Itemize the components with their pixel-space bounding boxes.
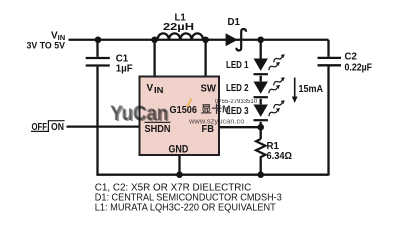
svg-text:V: V (147, 83, 154, 94)
wire SW pin (204, 40, 206, 78)
wire GND pin (178, 155, 180, 175)
watermark (110, 99, 258, 127)
svg-text:C2: C2 (345, 52, 357, 63)
node L1 left (151, 36, 158, 43)
node top-left (95, 36, 102, 43)
label OFF/ON (31, 121, 65, 133)
wire VIN pin (153, 40, 155, 78)
wire FB (219, 126, 261, 128)
LED 2 (226, 76, 286, 98)
svg-text:1µF: 1µF (116, 63, 133, 74)
svg-text:L1: MURATA LQH3C-220 OR EQUIVA: L1: MURATA LQH3C-220 OR EQUIVALENT (95, 202, 276, 213)
node GND rail (176, 171, 183, 178)
LED 3 (226, 99, 286, 121)
svg-text:D1: D1 (228, 17, 241, 28)
node L1 right (202, 36, 209, 43)
svg-text:6.34Ω: 6.34Ω (267, 151, 293, 162)
wire SHDN (67, 125, 140, 127)
svg-text:15mA: 15mA (299, 84, 324, 95)
diode D1 schottky (226, 17, 246, 51)
svg-text:IN: IN (154, 86, 164, 95)
svg-text:www.szyucan.co: www.szyucan.co (188, 117, 244, 126)
wire LED string (260, 40, 262, 175)
svg-text:FB: FB (202, 124, 215, 135)
node R1 bottom (257, 171, 264, 178)
svg-text:0.22µF: 0.22µF (345, 63, 373, 74)
wire right side vertical (327, 40, 329, 176)
svg-text:SW: SW (201, 83, 217, 94)
capacitor C2 (318, 52, 373, 74)
inductor L1 (158, 13, 204, 40)
svg-text:3V TO 5V: 3V TO 5V (27, 41, 66, 52)
svg-text:LED 1: LED 1 (226, 60, 249, 71)
node D1 cathode (257, 36, 264, 43)
svg-text:ON: ON (51, 122, 64, 133)
node FB (257, 124, 264, 131)
svg-text:22µH: 22µH (163, 22, 194, 33)
svg-text:GND: GND (169, 144, 189, 156)
svg-text:0755-27933510: 0755-27933510 (215, 99, 258, 105)
capacitor C1 (86, 53, 133, 74)
wire top rail (69, 39, 329, 41)
svg-text:YuCan: YuCan (110, 102, 168, 125)
wire bottom rail (96, 174, 328, 176)
label VIN input (27, 30, 66, 51)
resistor R1 (256, 139, 292, 162)
LED 1 (226, 53, 286, 75)
op-amp U1 G1506 regulator box (140, 77, 220, 156)
svg-text:G1506: G1506 (170, 105, 198, 116)
svg-text:LED 2: LED 2 (226, 83, 249, 94)
arrow 15mA (292, 78, 323, 104)
wire C1 branch (96, 40, 98, 175)
